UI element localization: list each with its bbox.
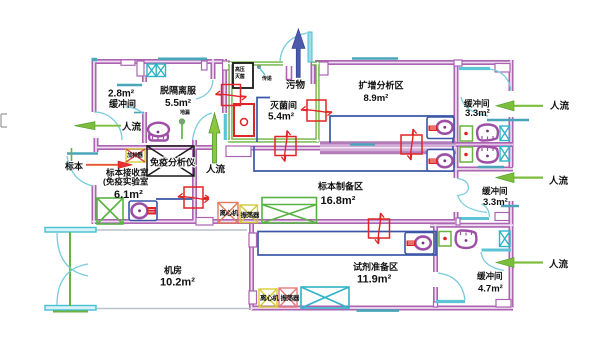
svg-text:标本: 标本 — [64, 161, 84, 172]
svg-text:缓冲间: 缓冲间 — [464, 99, 490, 109]
svg-text:离心机: 离心机 — [220, 208, 239, 217]
svg-text:8.9m²: 8.9m² — [364, 93, 389, 104]
svg-text:标本制备区: 标本制备区 — [317, 181, 363, 192]
svg-text:人流: 人流 — [550, 100, 570, 112]
svg-text:扩增分析区: 扩增分析区 — [359, 80, 404, 91]
svg-text:人流: 人流 — [122, 121, 142, 133]
svg-text:免疫分析仪: 免疫分析仪 — [150, 157, 196, 168]
svg-text:5.4m²: 5.4m² — [268, 112, 295, 123]
svg-text:3.3m²: 3.3m² — [483, 197, 508, 208]
svg-text:高压: 高压 — [235, 66, 245, 73]
svg-text:加样器: 加样器 — [126, 151, 143, 159]
svg-text:人流: 人流 — [549, 259, 569, 271]
svg-text:16.8m²: 16.8m² — [321, 195, 356, 207]
svg-text:11.9m²: 11.9m² — [357, 274, 392, 286]
svg-text:5.5m²: 5.5m² — [165, 98, 192, 109]
svg-text:2.8m²: 2.8m² — [108, 89, 135, 100]
svg-text:缓冲间: 缓冲间 — [109, 98, 136, 109]
svg-text:6.1m²: 6.1m² — [114, 189, 143, 201]
svg-text:10.2m²: 10.2m² — [160, 277, 195, 289]
svg-text:人流: 人流 — [206, 164, 226, 176]
svg-text:离心机: 离心机 — [260, 293, 279, 302]
svg-text:传递: 传递 — [261, 75, 273, 82]
svg-text:脱隔离服: 脱隔离服 — [160, 85, 197, 96]
svg-text:4.7m²: 4.7m² — [478, 284, 503, 295]
svg-text:灭菌: 灭菌 — [234, 73, 245, 80]
svg-text:灭菌间: 灭菌间 — [269, 100, 297, 111]
svg-text:缓冲间: 缓冲间 — [482, 186, 508, 196]
svg-text:振荡器: 振荡器 — [281, 293, 300, 302]
svg-text:振荡器: 振荡器 — [241, 210, 260, 219]
svg-text:3.3m²: 3.3m² — [465, 108, 490, 119]
svg-text:机房: 机房 — [164, 265, 182, 276]
svg-text:(免疫实验室: (免疫实验室 — [103, 177, 149, 187]
svg-text:人流: 人流 — [549, 175, 569, 187]
svg-text:地漏: 地漏 — [180, 109, 190, 116]
svg-text:试剂准备区: 试剂准备区 — [353, 261, 398, 272]
svg-text:污物: 污物 — [286, 79, 306, 91]
svg-text:缓冲间: 缓冲间 — [477, 271, 503, 281]
